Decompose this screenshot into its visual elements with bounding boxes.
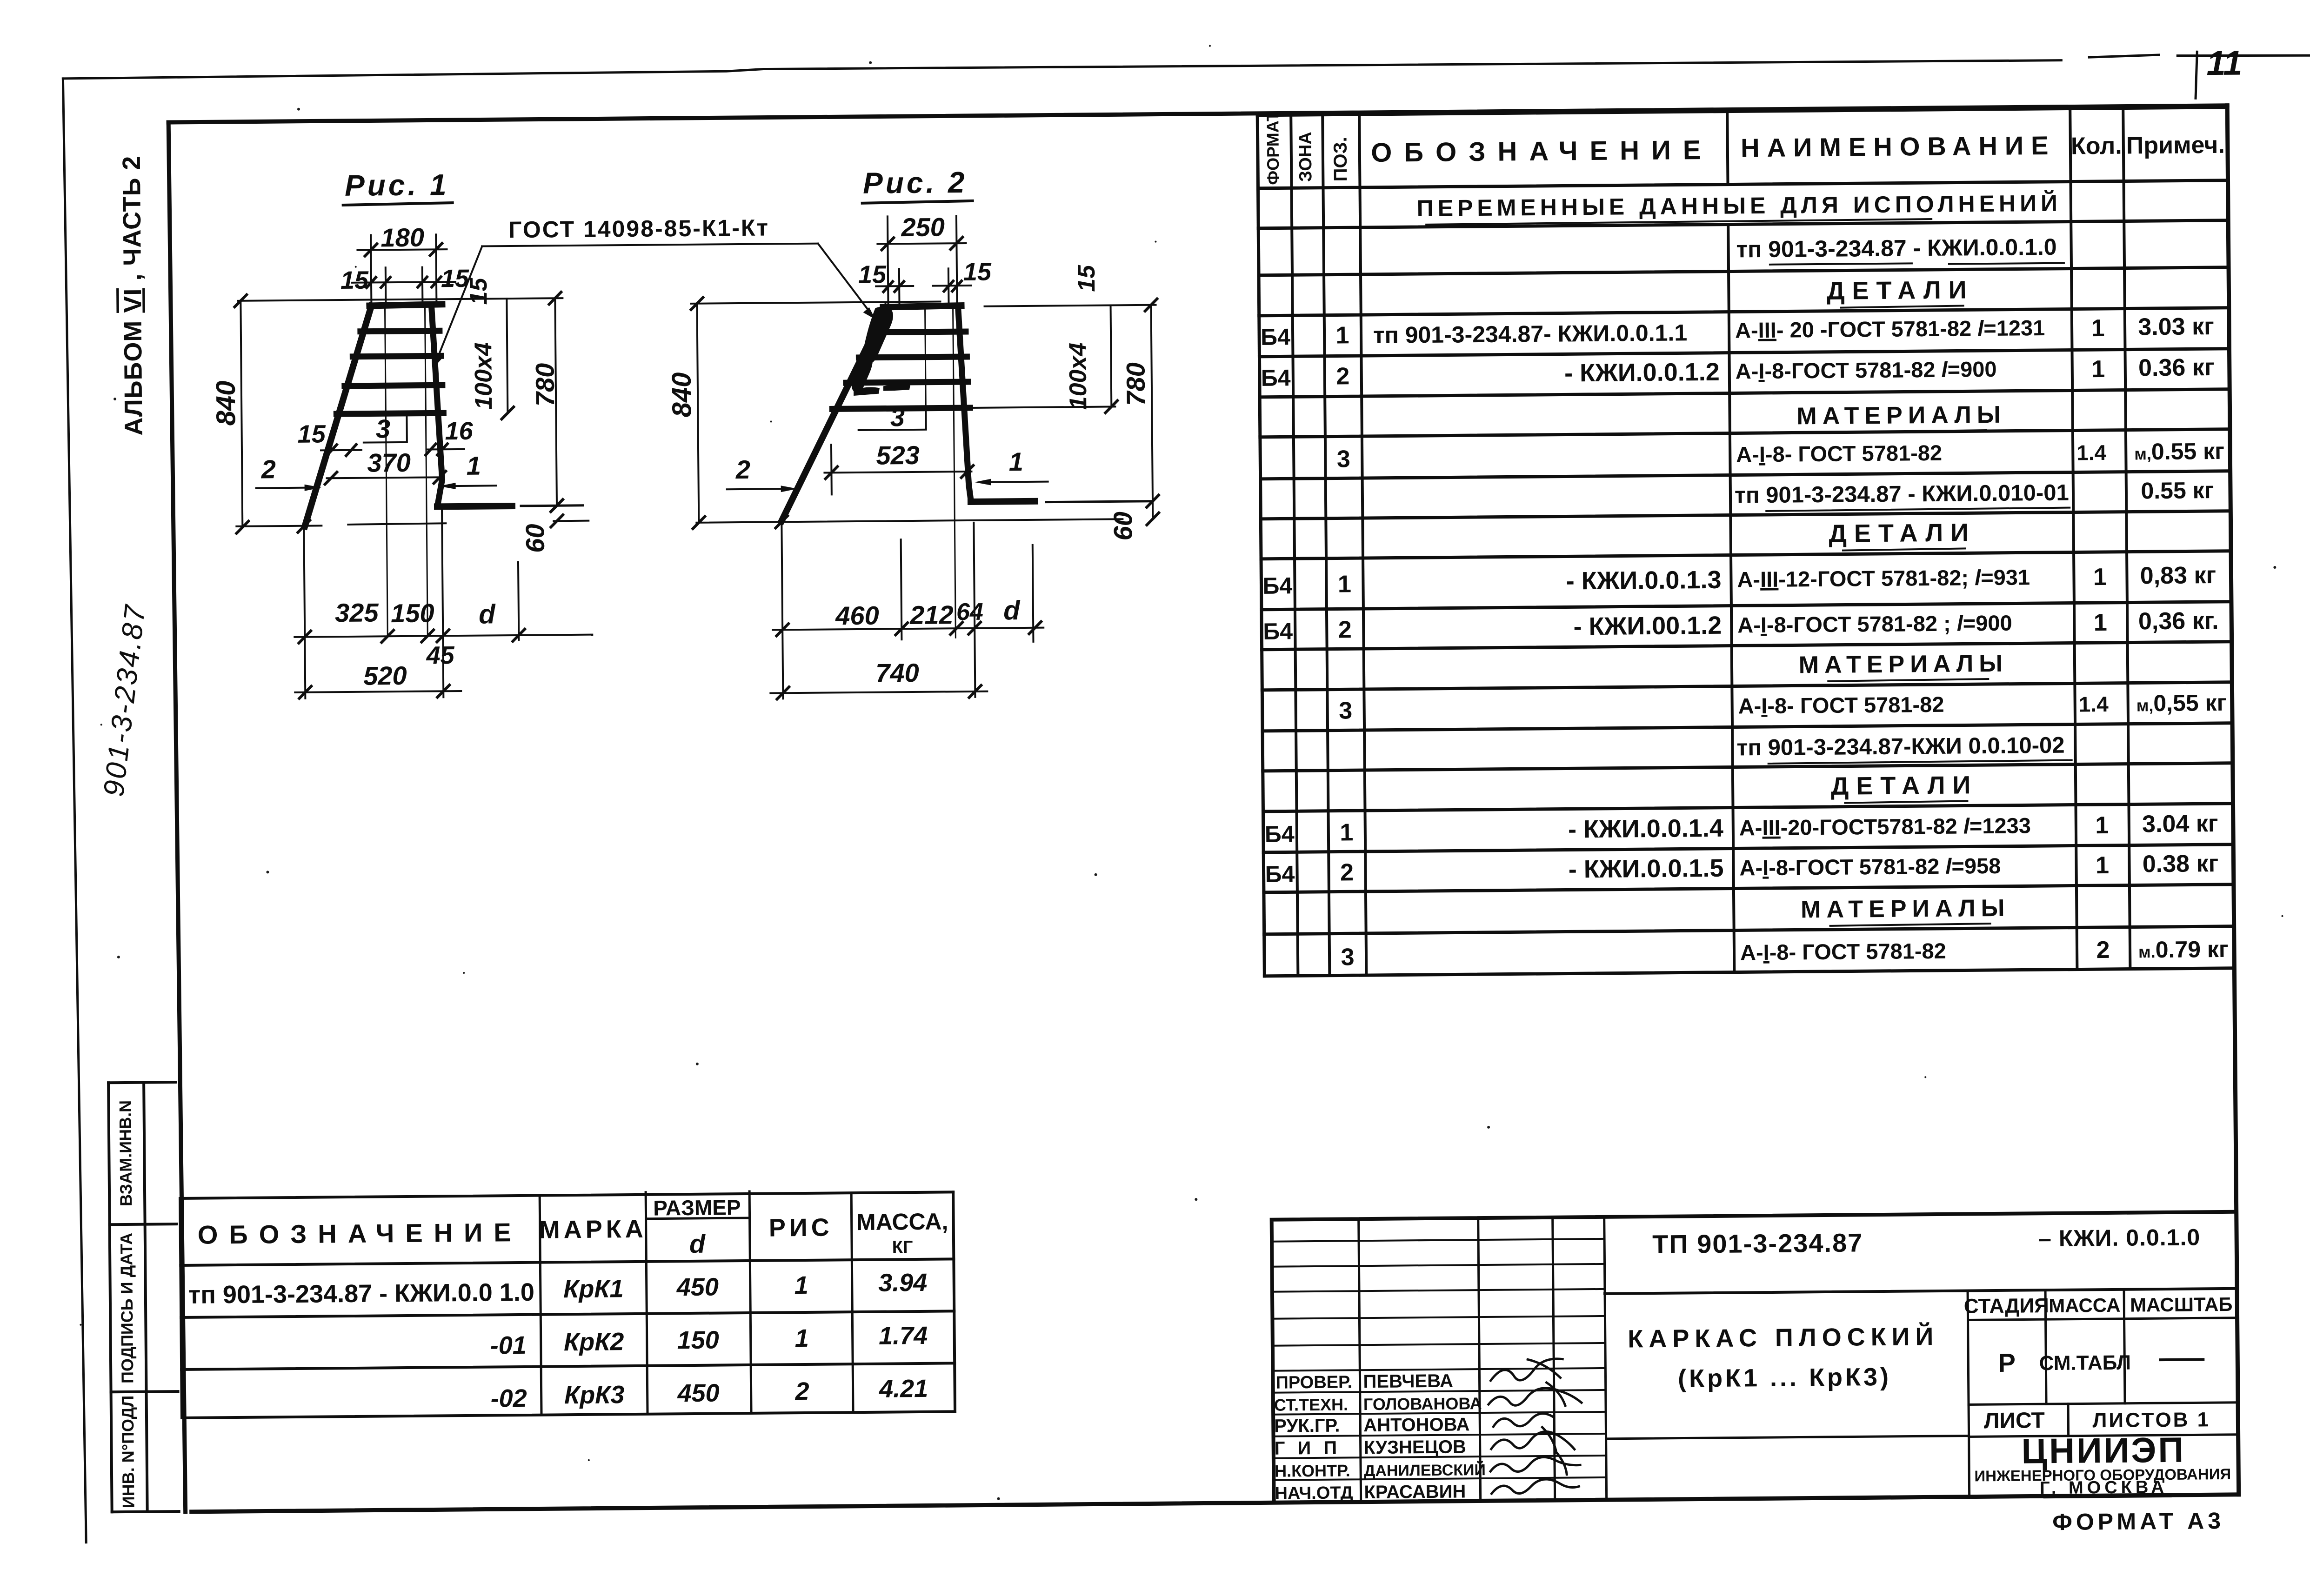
fig1 60 lower witness line <box>554 520 588 522</box>
svg-text:м,0.55 кг: м,0.55 кг <box>2134 438 2224 465</box>
svg-text:А-I-8- ГОСТ 5781-82: А-I-8- ГОСТ 5781-82 <box>1736 440 1942 467</box>
svg-text:1: 1 <box>2091 315 2104 342</box>
fig1 100x4 ticks <box>501 407 514 419</box>
svg-text:тп 901-3-234.87 - КЖИ.0.0 1.0: тп 901-3-234.87 - КЖИ.0.0 1.0 <box>188 1278 534 1309</box>
svg-text:15: 15 <box>963 258 992 286</box>
svg-text:РИС: РИС <box>769 1213 833 1242</box>
fig1 dim 15 mid-left line and ticks <box>321 449 361 452</box>
svg-text:2: 2 <box>1336 363 1349 390</box>
fig1 rung 4 <box>336 413 443 414</box>
fig1 interior vertical wires <box>385 306 427 637</box>
svg-text:2: 2 <box>1340 859 1354 886</box>
outer border top-right dashes <box>2089 53 2310 57</box>
fig2 interior vertical wires <box>925 306 956 638</box>
title block designation cell bottom <box>1605 1289 2237 1294</box>
svg-text:ДЕТАЛИ: ДЕТАЛИ <box>1829 519 1976 548</box>
fig1 title underline <box>343 203 453 205</box>
svg-text:3: 3 <box>1339 697 1352 724</box>
fig2 bar 3 top chord <box>883 306 961 307</box>
fig1 witness lines above top bar <box>371 234 436 305</box>
svg-text:1: 1 <box>2091 356 2105 383</box>
svg-text:МАСШТАБ: МАСШТАБ <box>2130 1293 2233 1316</box>
svg-text:МАТЕРИАЛЫ: МАТЕРИАЛЫ <box>1799 650 2009 679</box>
svg-text:4.21: 4.21 <box>879 1375 928 1403</box>
svg-text:ТП 901-3-234.87: ТП 901-3-234.87 <box>1652 1228 1863 1259</box>
fig1 rung 3 <box>345 385 442 386</box>
fig2 scan smudge blobs along left bar <box>862 306 894 364</box>
svg-text:d: d <box>479 599 496 629</box>
main frame right edge <box>2227 106 2238 1495</box>
svg-text:НАИМЕНОВАНИЕ: НАИМЕНОВАНИЕ <box>1741 131 2056 163</box>
svg-text:3: 3 <box>1337 446 1350 472</box>
svg-text:ЛИСТОВ 1: ЛИСТОВ 1 <box>2092 1408 2210 1432</box>
signature scribbles <box>1490 1359 1562 1381</box>
title block stage header bottom <box>1968 1318 2237 1320</box>
fig2 dim line 523 <box>824 472 971 473</box>
svg-text:А-I-8-ГОСТ 5781-82 l=900: А-I-8-ГОСТ 5781-82 l=900 <box>1736 357 1997 384</box>
svg-text:16: 16 <box>445 417 474 445</box>
svg-text:2: 2 <box>260 454 276 484</box>
svg-text:1: 1 <box>794 1324 809 1352</box>
svg-text:Б4: Б4 <box>1265 861 1295 887</box>
fig2 rung4 thin extension right <box>970 406 1115 408</box>
outer sheet border top edge <box>63 59 2061 79</box>
svg-text:0,36 кг.: 0,36 кг. <box>2138 607 2219 635</box>
main frame left edge <box>168 122 186 1512</box>
fig2 rung 2 <box>859 357 967 358</box>
svg-text:Г. МОСКВА: Г. МОСКВА <box>2040 1477 2168 1498</box>
fig2 dim line 250 <box>877 243 966 244</box>
svg-text:ГОЛОВАНОВА: ГОЛОВАНОВА <box>1363 1394 1482 1414</box>
svg-text:ДАНИЛЕВСКИЙ: ДАНИЛЕВСКИЙ <box>1364 1461 1486 1480</box>
svg-text:150: 150 <box>677 1326 719 1355</box>
svg-text:840: 840 <box>667 372 697 417</box>
main frame bottom edge <box>192 1495 2239 1512</box>
svg-text:-02: -02 <box>490 1384 527 1413</box>
svg-text:м,0,55 кг: м,0,55 кг <box>2136 690 2226 717</box>
fig2 pos label 3 leader <box>858 408 926 430</box>
fig2 top reference line right piece <box>985 305 1156 306</box>
svg-text:450: 450 <box>677 1379 720 1408</box>
svg-text:ОБОЗНАЧЕНИЕ: ОБОЗНАЧЕНИЕ <box>198 1217 522 1250</box>
svg-text:м.0.79 кг: м.0.79 кг <box>2138 936 2229 963</box>
fig1 pos label 3 leader <box>363 413 407 443</box>
svg-text:Р: Р <box>1998 1348 2016 1377</box>
svg-text:А-III-20-ГОСТ5781-82 l=1233: А-III-20-ГОСТ5781-82 l=1233 <box>1739 813 2031 840</box>
svg-text:370: 370 <box>367 448 411 478</box>
big table grid horizontals <box>1257 107 2234 976</box>
fig1 780 dim vertical <box>555 298 557 505</box>
fig2 bar 2 left incline <box>780 307 888 521</box>
svg-text:– КЖИ. 0.0.1.0: – КЖИ. 0.0.1.0 <box>2038 1224 2200 1251</box>
svg-text:КГ: КГ <box>892 1237 913 1257</box>
weld label leader diagonal to fig1 <box>436 246 483 359</box>
svg-text:15: 15 <box>465 277 492 305</box>
title block outer rect <box>1272 1212 2239 1503</box>
fig1 dim lines 15 top <box>352 282 455 283</box>
svg-text:Г И П: Г И П <box>1275 1438 1341 1459</box>
svg-text:СТ.ТЕХН.: СТ.ТЕХН. <box>1274 1395 1348 1414</box>
svg-text:3.04 кг: 3.04 кг <box>2142 810 2218 838</box>
svg-text:А-III- 20 -ГОСТ 5781-82 l=123: А-III- 20 -ГОСТ 5781-82 l=1231 <box>1735 315 2045 342</box>
svg-text:1: 1 <box>1008 447 1023 476</box>
GOST-LABEL <box>433 214 876 368</box>
svg-text:1: 1 <box>2095 812 2109 839</box>
fig1 dim line 325-150-45-d <box>294 635 592 637</box>
svg-text:901-3-234.87: 901-3-234.87 <box>98 602 152 798</box>
svg-text:325: 325 <box>335 598 379 627</box>
svg-text:Б4: Б4 <box>1261 365 1291 391</box>
marks table grid verticals <box>180 1192 955 1418</box>
org line 3 underline <box>2044 1496 2171 1497</box>
fig1 dim line 370 <box>327 477 444 478</box>
fig2 100x4 dim vertical <box>1111 305 1112 406</box>
svg-text:Б4: Б4 <box>1262 572 1292 599</box>
fig2 bottom reference line <box>696 519 1122 523</box>
fig2 rung 4 <box>832 408 970 409</box>
svg-text:11: 11 <box>2206 43 2243 82</box>
svg-text:250: 250 <box>901 212 945 242</box>
svg-text:РАЗМЕР: РАЗМЕР <box>653 1195 741 1220</box>
svg-text:тп 901-3-234.87 - КЖИ.0.010-01: тп 901-3-234.87 - КЖИ.0.010-01 <box>1735 480 2069 508</box>
fig2 bottom ref tick at left bar <box>775 516 788 528</box>
svg-text:1: 1 <box>1338 571 1351 598</box>
svg-text:0.38 кг: 0.38 кг <box>2143 850 2219 878</box>
svg-text:МАССА,: МАССА, <box>856 1208 948 1235</box>
fig1 100x4 dim vertical <box>507 299 507 413</box>
svg-text:180: 180 <box>381 223 424 253</box>
svg-text:ПРОВЕР.: ПРОВЕР. <box>1275 1372 1352 1392</box>
fig1 dim 180 ticks <box>365 243 442 256</box>
svg-text:523: 523 <box>876 440 920 470</box>
svg-text:2: 2 <box>1338 616 1352 643</box>
svg-text:1: 1 <box>2094 609 2107 636</box>
fig1 840 dim vertical <box>240 301 242 527</box>
value масштаб dash <box>2160 1358 2203 1361</box>
fig2 title underline <box>862 201 973 203</box>
weld label horizontal leader line <box>482 244 818 246</box>
marks table grid horizontals <box>180 1192 955 1418</box>
fig2 dim lines 15 top <box>876 286 971 286</box>
svg-text:Б4: Б4 <box>1261 324 1290 350</box>
FIG2 <box>665 164 1160 700</box>
main frame top edge <box>168 106 2227 122</box>
svg-text:ПОДПИСЬ И ДАТА: ПОДПИСЬ И ДАТА <box>117 1233 137 1383</box>
svg-text:МАТЕРИАЛЫ: МАТЕРИАЛЫ <box>1796 401 2006 430</box>
svg-text:ГОСТ 14098-85-К1-Кт: ГОСТ 14098-85-К1-Кт <box>508 214 769 243</box>
svg-text:100х4: 100х4 <box>1064 342 1092 410</box>
svg-text:520: 520 <box>363 661 407 691</box>
svg-text:60: 60 <box>1108 512 1138 541</box>
svg-text:15: 15 <box>858 260 887 288</box>
fig2 840 dim vertical <box>697 304 699 523</box>
svg-text:тп 901-3-234.87- КЖИ.0.0.1.1: тп 901-3-234.87- КЖИ.0.0.1.1 <box>1373 319 1687 348</box>
svg-text:780: 780 <box>530 363 560 406</box>
FIG1 <box>209 167 593 699</box>
svg-text:15: 15 <box>340 266 369 294</box>
svg-text:3: 3 <box>1341 944 1354 971</box>
svg-text:Рис. 1: Рис. 1 <box>345 168 449 202</box>
svg-text:2: 2 <box>2096 937 2110 964</box>
svg-text:А-I-8-ГОСТ 5781-82 ; l=900: А-I-8-ГОСТ 5781-82 ; l=900 <box>1737 611 2012 638</box>
svg-text:64: 64 <box>956 598 983 625</box>
svg-text:15: 15 <box>1073 265 1100 292</box>
fig2 780 dim vertical <box>1151 305 1153 519</box>
svg-text:- КЖИ.0.0.1.2: - КЖИ.0.0.1.2 <box>1564 358 1720 387</box>
svg-text:100х4: 100х4 <box>470 342 497 410</box>
fig1 840 ticks <box>234 295 248 533</box>
svg-text:d: d <box>1003 595 1021 625</box>
fig2 foot thin continuation <box>1046 501 1151 502</box>
svg-text:0,83 кг: 0,83 кг <box>2140 562 2217 589</box>
svg-text:ДЕТАЛИ: ДЕТАЛИ <box>1827 276 1974 305</box>
fig1 foot thin continuation <box>521 505 583 506</box>
fig2 rung 1 <box>871 332 966 332</box>
page number separator tick <box>2195 52 2197 98</box>
svg-text:2: 2 <box>794 1377 809 1405</box>
fig2 bar 1 foot <box>971 501 1035 502</box>
fig1 bottom reference line <box>236 523 446 526</box>
svg-text:АЛЬБОМ VI , ЧАСТЬ 2: АЛЬБОМ VI , ЧАСТЬ 2 <box>118 155 148 436</box>
svg-text:А-III-12-ГОСТ 5781-82; l=931: А-III-12-ГОСТ 5781-82; l=931 <box>1737 565 2030 592</box>
svg-text:ФОРМАТ: ФОРМАТ <box>1263 111 1282 185</box>
svg-text:460: 460 <box>835 601 879 631</box>
svg-text:ПЕРЕМЕННЫЕ ДАННЫЕ ДЛЯ ИСПОЛНЕН: ПЕРЕМЕННЫЕ ДАННЫЕ ДЛЯ ИСПОЛНЕНИЙ <box>1417 190 2062 221</box>
svg-text:1: 1 <box>466 451 481 480</box>
svg-text:КАРКАС ПЛОСКИЙ: КАРКАС ПЛОСКИЙ <box>1628 1322 1939 1353</box>
svg-text:Н.КОНТР.: Н.КОНТР. <box>1275 1461 1350 1480</box>
fig1 bar 1 right bar <box>431 305 442 505</box>
svg-text:- КЖИ.0.0.1.5: - КЖИ.0.0.1.5 <box>1569 854 1724 884</box>
svg-text:3.03 кг: 3.03 кг <box>2138 313 2214 340</box>
svg-text:60: 60 <box>520 524 550 553</box>
svg-text:ЦНИИЭП: ЦНИИЭП <box>2021 1430 2185 1471</box>
fig1 bar 3 top chord <box>369 304 442 306</box>
svg-text:150: 150 <box>391 598 434 628</box>
fig1 dim line 520 <box>295 691 461 692</box>
fig2 bottom dim ticks <box>776 622 1041 636</box>
svg-text:РУК.ГР.: РУК.ГР. <box>1274 1416 1340 1436</box>
big table grid verticals <box>1257 115 1264 976</box>
svg-text:840: 840 <box>211 380 241 426</box>
fig2 dim line 460-212-64-d <box>773 628 1043 630</box>
svg-text:3: 3 <box>376 414 391 443</box>
svg-text:0.55 кг: 0.55 кг <box>2141 477 2214 504</box>
fig1 pos 2 leader with arrow <box>256 488 315 488</box>
svg-text:А-I-8- ГОСТ 5781-82: А-I-8- ГОСТ 5781-82 <box>1738 692 1944 718</box>
svg-text:740: 740 <box>875 658 919 688</box>
fig1 bottom ref tick at left bar <box>298 520 310 532</box>
svg-text:А-I-8- ГОСТ 5781-82: А-I-8- ГОСТ 5781-82 <box>1740 938 1946 965</box>
fig1 bar 2 left incline <box>303 306 373 526</box>
svg-text:ОБОЗНАЧЕНИЕ: ОБОЗНАЧЕНИЕ <box>1371 135 1713 168</box>
svg-text:d: d <box>689 1229 707 1258</box>
svg-text:ДЕТАЛИ: ДЕТАЛИ <box>1831 771 1978 800</box>
fig1 rung 1 <box>361 331 440 331</box>
svg-text:1.4: 1.4 <box>2076 440 2107 465</box>
svg-text:1: 1 <box>794 1271 809 1299</box>
svg-text:КрК2: КрК2 <box>564 1328 624 1356</box>
svg-text:1: 1 <box>1335 322 1349 349</box>
svg-text:780: 780 <box>1121 362 1151 406</box>
fig2 523 left witness <box>830 445 833 494</box>
fig2 dim line 740 <box>770 692 987 693</box>
fig1 bar 1 foot <box>437 506 512 506</box>
svg-text:тп 901-3-234.87-КЖИ 0.0.10-02: тп 901-3-234.87-КЖИ 0.0.10-02 <box>1736 733 2065 761</box>
svg-text:МАРКА: МАРКА <box>539 1215 647 1244</box>
fig1 dim line 180 <box>357 249 447 250</box>
svg-text:ПОЗ.: ПОЗ. <box>1330 137 1351 181</box>
svg-text:1: 1 <box>1340 819 1353 846</box>
svg-text:212: 212 <box>909 600 954 630</box>
svg-text:1.4: 1.4 <box>2079 692 2109 717</box>
svg-text:- КЖИ.0.0.1.4: - КЖИ.0.0.1.4 <box>1568 814 1723 844</box>
svg-text:ЛИСТ: ЛИСТ <box>1984 1408 2045 1433</box>
svg-text:КРАСАВИН: КРАСАВИН <box>1364 1481 1466 1503</box>
fig2 pos 2 leader with arrow <box>727 489 791 489</box>
fig1 pos 1 leader with arrow <box>446 485 496 487</box>
svg-text:2: 2 <box>735 455 751 484</box>
fig1 780 ticks <box>549 292 563 512</box>
svg-text:КУЗНЕЦОВ: КУЗНЕЦОВ <box>1364 1436 1466 1458</box>
svg-text:15: 15 <box>297 420 326 448</box>
svg-text:1.74: 1.74 <box>879 1322 928 1350</box>
weld label leader diagonal to fig2 <box>818 243 869 313</box>
fig1 witness verticals to bottom dims <box>304 506 519 698</box>
fig2 bar 1 right bar <box>958 306 971 500</box>
svg-text:МАТЕРИАЛЫ: МАТЕРИАЛЫ <box>1801 895 2010 924</box>
svg-text:ЗОНА: ЗОНА <box>1296 132 1316 182</box>
svg-text:1: 1 <box>2093 564 2107 591</box>
svg-text:СМ.ТАБЛ: СМ.ТАБЛ <box>2039 1351 2131 1375</box>
svg-text:Примеч.: Примеч. <box>2126 132 2225 160</box>
svg-text:ВЗАМ.ИНВ.N: ВЗАМ.ИНВ.N <box>115 1100 135 1206</box>
stamp boxes grid <box>108 1083 147 1512</box>
svg-text:450: 450 <box>676 1273 719 1302</box>
title block лист row bottom <box>1606 1434 2238 1440</box>
svg-text:ФОРМАТ А3: ФОРМАТ А3 <box>2052 1508 2224 1535</box>
svg-text:Б4: Б4 <box>1263 618 1293 645</box>
fig2 witness verticals to bottom dims <box>781 520 1034 698</box>
svg-text:- КЖИ.00.1.2: - КЖИ.00.1.2 <box>1573 612 1722 641</box>
fig2 60 dim ticks <box>1147 513 1159 525</box>
svg-text:3: 3 <box>890 402 905 432</box>
svg-text:Кол.: Кол. <box>2071 133 2122 160</box>
svg-text:КрК3: КрК3 <box>564 1381 625 1409</box>
svg-text:ИНВ. N°ПОДЛ: ИНВ. N°ПОДЛ <box>118 1396 138 1509</box>
fig1 60 dim ticks <box>551 499 563 527</box>
svg-text:0.36 кг: 0.36 кг <box>2138 354 2215 381</box>
fig2 pos 1 leader with arrow <box>981 482 1048 482</box>
title block horizontals left section rows <box>1272 1239 1606 1480</box>
svg-text:- КЖИ.0.0.1.3: - КЖИ.0.0.1.3 <box>1566 566 1722 595</box>
svg-text:НАЧ.ОТД: НАЧ.ОТД <box>1275 1483 1353 1503</box>
svg-text:(КрК1 ... КрК3): (КрК1 ... КрК3) <box>1678 1363 1891 1393</box>
outer sheet border left edge <box>63 79 86 1543</box>
svg-text:45: 45 <box>426 641 455 670</box>
title block main verticals <box>1359 1217 1607 1502</box>
fig2 rung 3 <box>846 382 968 383</box>
fig1 dim 15 ticks <box>367 277 441 287</box>
fig2 witness lines above top bar <box>888 216 957 306</box>
svg-text:Рис. 2: Рис. 2 <box>863 166 968 200</box>
svg-text:КрК1: КрК1 <box>563 1275 624 1303</box>
svg-text:тп 901-3-234.87 - КЖИ.0.0.1.0: тп 901-3-234.87 - КЖИ.0.0.1.0 <box>1736 234 2056 263</box>
marks table размер sub-divider <box>646 1218 750 1219</box>
svg-text:-01: -01 <box>490 1331 527 1360</box>
svg-text:А-I-8-ГОСТ 5781-82 l=958: А-I-8-ГОСТ 5781-82 l=958 <box>1739 853 2001 880</box>
svg-text:АНТОНОВА: АНТОНОВА <box>1363 1414 1469 1436</box>
svg-text:МАССА: МАССА <box>2049 1294 2121 1317</box>
fig1 bottom dim ticks <box>299 629 525 643</box>
svg-text:Б4: Б4 <box>1265 821 1295 847</box>
fig2 top reference line <box>691 301 940 303</box>
svg-text:СТАДИЯ: СТАДИЯ <box>1964 1294 2049 1317</box>
fig1 dim 16 mid-right line and ticks <box>427 448 464 451</box>
fig1 rung 2 <box>353 356 441 357</box>
svg-text:3.94: 3.94 <box>878 1269 928 1297</box>
fig1 top reference line <box>238 298 562 301</box>
svg-text:ПЕВЧЕВА: ПЕВЧЕВА <box>1363 1371 1453 1392</box>
title block stage row bottom <box>1969 1403 2238 1405</box>
svg-text:1: 1 <box>2096 852 2109 879</box>
